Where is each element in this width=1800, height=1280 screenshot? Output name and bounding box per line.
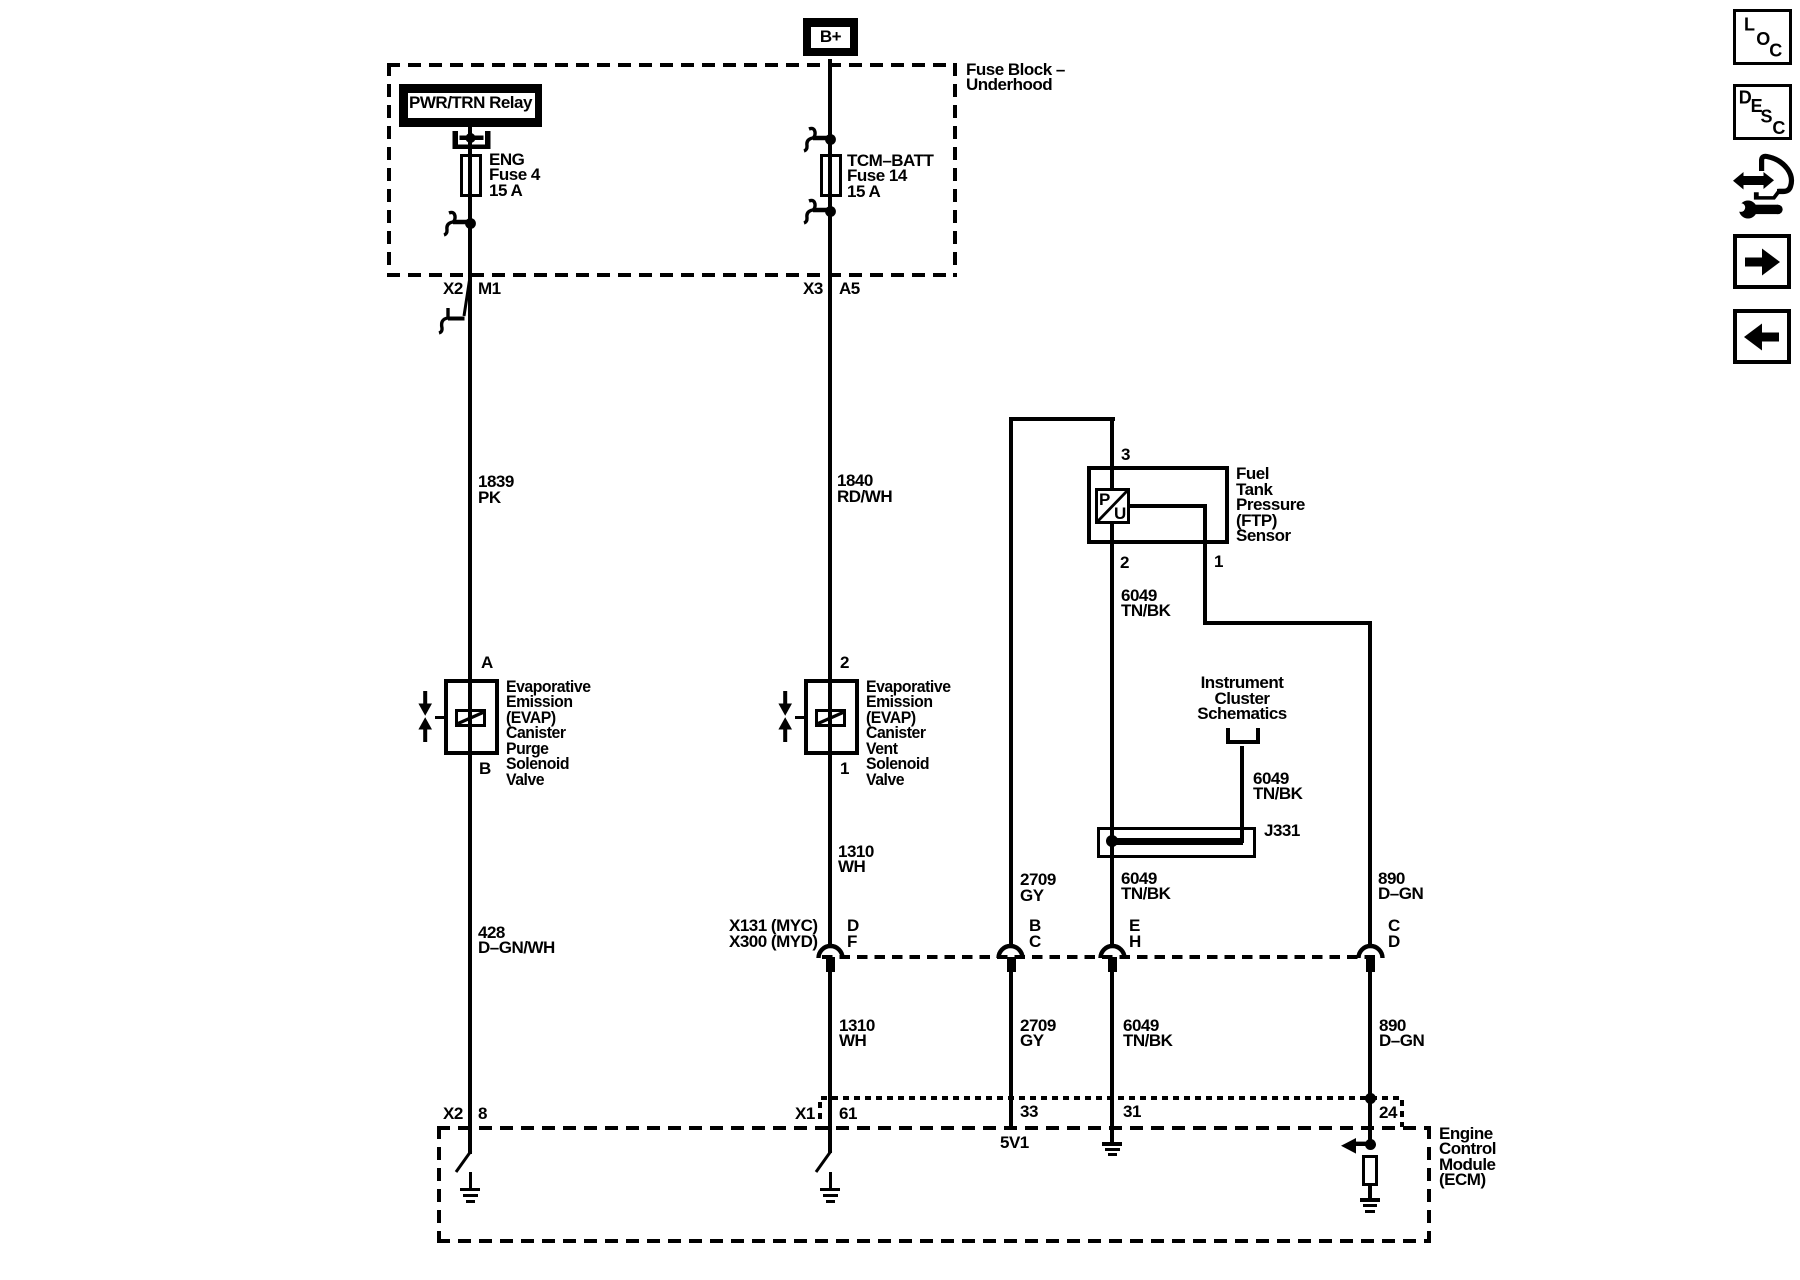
pin label 24 at ECM [1379, 1105, 1397, 1121]
wire through FTP sensor pin2 lower stub [1110, 524, 1114, 544]
label 5V1 [1000, 1135, 1029, 1151]
label X131 (MYC) X300 (MYD) [729, 918, 818, 949]
fuse block underhood dashed box [387, 63, 957, 277]
pin labels C D at inline connector [1388, 918, 1400, 949]
pigtail terminal at X2/M1 [436, 275, 476, 335]
splice J331 bus bar [1110, 838, 1243, 845]
inline connector X131/X300 dashed line [822, 955, 1378, 959]
wire through FTP sensor (pin 3 to pin 2) [1110, 466, 1114, 544]
icon: back arrow box [1733, 309, 1791, 364]
label: Engine Control Module (ECM) [1439, 1126, 1496, 1188]
pin 2 of vent solenoid [840, 655, 849, 671]
wire: PWR/TRN relay output down to EVAP purge solenoid (circuit 1839) [468, 127, 472, 679]
wire label 2709 GY lower [1020, 1018, 1056, 1049]
wire: 2709 GY lower segment to ECM pin 33 [1009, 972, 1013, 1129]
splice J331 box [1097, 827, 1256, 858]
connector pin C/D [1366, 957, 1375, 972]
pin label X1 at ECM [795, 1106, 815, 1122]
connector socket arc D/F [816, 943, 845, 959]
relay output terminal bracket [450, 128, 494, 154]
label: TCM-BATT Fuse 14 15 A [847, 153, 933, 200]
ground G1 at ECM pin 8 [469, 1172, 473, 1188]
pin 1 of FTP sensor [1214, 554, 1223, 570]
pin A of purge solenoid [481, 655, 493, 671]
icon: DESC box [1733, 84, 1792, 140]
connector pin E/H [1108, 957, 1117, 972]
ground slant at ECM pin 61 [812, 1150, 834, 1174]
wire: 1310 WH lower segment to ECM pin 61 [828, 972, 832, 1153]
icon: LOC box [1733, 9, 1792, 65]
ground slant at ECM pin 8 [452, 1150, 474, 1174]
pin label 33 at ECM [1020, 1104, 1038, 1120]
wire: 890 D-GN lower segment to ECM pin 24 [1368, 972, 1372, 1144]
wire below resistor [1368, 1186, 1372, 1198]
sensor B1: fuel tank pressure sensor box [1087, 466, 1229, 544]
svg-text:S: S [1761, 106, 1773, 126]
pin B of purge solenoid [479, 761, 491, 777]
pin labels B C at inline connector [1029, 918, 1041, 949]
power symbol B+ [803, 18, 858, 56]
wire label 890 D-GN above connector [1378, 871, 1423, 902]
wire: B+ feed down to EVAP vent solenoid (circuit 1840) [828, 59, 832, 679]
label: Fuse Block - Underhood [966, 62, 1065, 93]
vent solenoid stub line [795, 716, 804, 719]
wire label 6049 TN/BK above connector [1121, 871, 1170, 902]
wire through vent solenoid [828, 679, 832, 755]
signal arrow at ECM pin 24 [1338, 1136, 1374, 1156]
pin 2 of FTP sensor [1120, 555, 1129, 571]
svg-text:C: C [1769, 40, 1782, 60]
vent valve actuator arrows [776, 690, 794, 743]
ground G2 at ECM pin 61 [829, 1172, 833, 1188]
label: Fuel Tank Pressure (FTP) Sensor [1236, 466, 1305, 544]
label: EVAP canister vent solenoid valve [866, 679, 951, 788]
wire label 890 D-GN lower [1379, 1018, 1424, 1049]
icon: next arrow box [1733, 234, 1791, 289]
wire label 1310 WH [838, 844, 874, 875]
ECM connector dotted boundary [821, 1096, 1404, 1100]
junction dot at J331 [1106, 835, 1118, 847]
label: EVAP canister purge solenoid valve [506, 679, 591, 788]
connector socket arc C/D [1356, 943, 1385, 959]
ground G4 below resistor [1360, 1198, 1380, 1202]
wire label 1839 PK [478, 474, 514, 505]
svg-text:L: L [1744, 15, 1755, 35]
icon: shortcut arrows and wrench [1725, 148, 1800, 225]
connector label X2 / M1 [443, 281, 463, 297]
pin 1 of vent solenoid [840, 761, 849, 777]
connector socket arc B/C [996, 943, 1025, 959]
ECM dashed box [437, 1126, 1431, 1243]
clip terminal above TCM fuse [800, 124, 840, 154]
solenoid L2: EVAP canister vent solenoid valve [804, 679, 859, 755]
vent solenoid coil element [815, 709, 846, 727]
connector pin D/F [826, 957, 835, 972]
pin 3 of FTP sensor [1121, 447, 1130, 463]
connector label X3 / A5 [803, 281, 823, 297]
FTP sensor P/U transducer element [1095, 488, 1130, 524]
wire: FTP sensor pin 3 drop [1110, 417, 1114, 466]
wire: 6049 TN/BK lower segment to ECM pin 31 [1110, 972, 1114, 1142]
label: ENG Fuse 4 15 A [489, 152, 540, 199]
wire: FTP pin 1 signal, down right jog (circuit 890) [1203, 544, 1207, 625]
svg-text:O: O [1756, 29, 1770, 49]
wire label 2709 GY above connector [1020, 872, 1056, 903]
off-page connector bracket to instrument cluster [1224, 728, 1262, 748]
pin label X2 at ECM [443, 1106, 463, 1122]
wire through purge solenoid [468, 679, 472, 755]
junction dot at pin 24 branch [1365, 1139, 1376, 1150]
wire: FTP pin 2 down through J331 to connector E/H (circuit 6049) [1110, 544, 1114, 947]
clip terminal below ENG fuse [440, 209, 480, 237]
connector socket arc E/H [1098, 943, 1127, 959]
purge solenoid coil element [455, 709, 486, 727]
svg-text:P: P [1099, 490, 1110, 509]
wire: 5V reference top horizontal run [1009, 417, 1115, 421]
connector pin B/C [1007, 957, 1016, 972]
wire label 6049 TN/BK below sensor [1121, 588, 1170, 619]
label J331 [1264, 823, 1300, 839]
ground G3 at ECM pin 31 [1102, 1142, 1122, 1146]
fuse F1: ENG Fuse 4 [460, 154, 482, 197]
junction dot at 890 wire and dotted line [1365, 1093, 1376, 1104]
wire: vent solenoid 1 down to connector D/F (circuit 1310) [828, 755, 832, 947]
clip terminal below TCM fuse [800, 196, 840, 226]
svg-text:C: C [1772, 118, 1785, 138]
pin labels E H at inline connector [1129, 918, 1141, 949]
pin label 31 at ECM [1123, 1104, 1141, 1120]
wire label 1310 WH lower [839, 1018, 875, 1049]
svg-text:U: U [1114, 504, 1126, 523]
relay K: PWR/TRN Relay box [399, 84, 542, 127]
FTP sensor internal signal wire to pin 1 [1130, 504, 1205, 508]
wire: purge solenoid B down to ECM pin 8 (circuit 428) [468, 755, 472, 1153]
wire: 5V reference vertical (circuit 2709) [1009, 417, 1013, 947]
solenoid L1: EVAP canister purge solenoid valve [444, 679, 499, 755]
pin label 61 at ECM [839, 1106, 857, 1122]
pin labels D F at inline connector [847, 918, 859, 949]
purge valve actuator arrows [416, 690, 434, 743]
fuse F2: TCM-BATT Fuse 14 [820, 154, 842, 197]
wire label 6049 TN/BK cluster branch [1253, 771, 1302, 802]
wire label 428 D-GN/WH [478, 925, 555, 956]
purge solenoid stub line [435, 716, 444, 719]
ECM connector dotted corner right [1400, 1100, 1404, 1127]
ECM connector dotted stub left [818, 1102, 822, 1123]
wire label 1840 RD/WH [837, 473, 892, 504]
wire: instrument cluster branch down to J331 [1240, 746, 1244, 843]
label: Instrument Cluster Schematics [1172, 675, 1312, 722]
pin label 8 at ECM [478, 1106, 487, 1122]
wire into ECM pin 8 [468, 1153, 472, 1154]
wire label 6049 TN/BK lower [1123, 1018, 1172, 1049]
resistor R1 inside ECM [1362, 1155, 1378, 1186]
